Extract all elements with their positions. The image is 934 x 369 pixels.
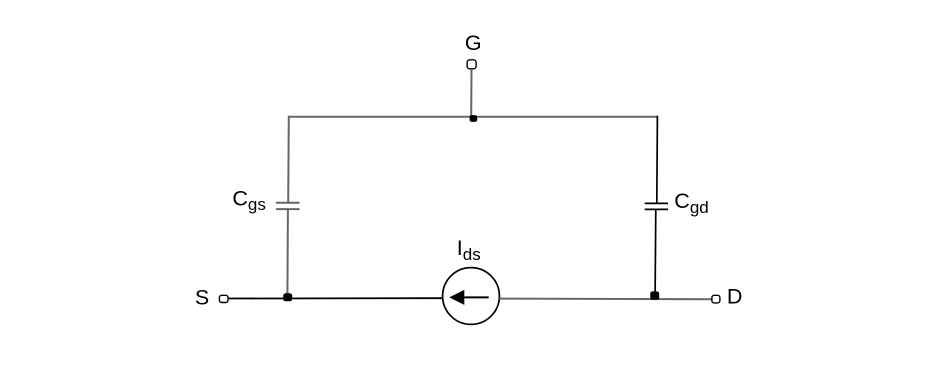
wire gate lead (470, 69, 472, 117)
node S terminal (219, 295, 228, 302)
svg-text:D: D (727, 284, 743, 308)
junction gate node (470, 115, 478, 122)
wire right branch lower (654, 209, 657, 295)
wire left branch lower (286, 209, 289, 298)
svg-text:S: S (195, 285, 209, 309)
junction drain node (650, 291, 659, 300)
current source Ids arrow (449, 290, 489, 305)
node G terminal (467, 60, 476, 69)
wire right branch upper (656, 116, 659, 204)
svg-text:Cgs: Cgs (232, 186, 266, 214)
wire source to current source (228, 297, 443, 299)
capacitor Cgs (276, 203, 300, 209)
wire gate top horizontal (289, 116, 658, 118)
node D terminal (712, 295, 720, 303)
junction source node (283, 293, 292, 301)
wire left branch upper (287, 116, 290, 203)
current source Ids circle (443, 268, 500, 325)
svg-text:Ids: Ids (457, 236, 481, 264)
capacitor Cgd (645, 203, 668, 209)
svg-text:Cgd: Cgd (674, 189, 708, 217)
wire current source to drain (499, 298, 712, 301)
svg-text:G: G (465, 31, 482, 55)
